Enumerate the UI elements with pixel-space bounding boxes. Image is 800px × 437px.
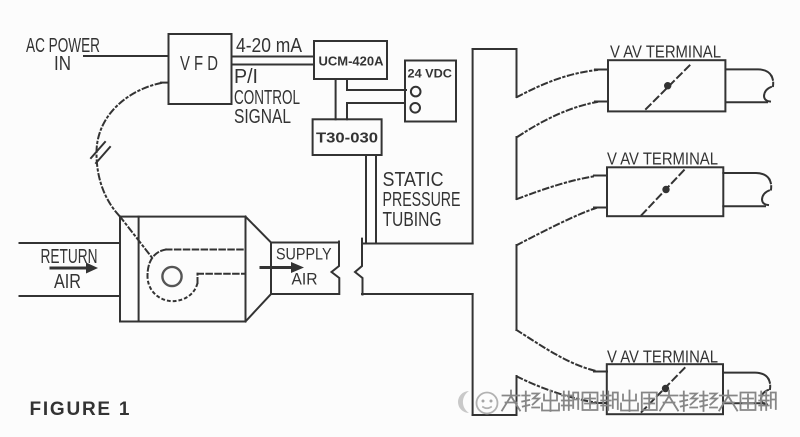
terminal1 outlet elbow dashed — [772, 76, 774, 86]
fan scroll circle — [162, 267, 181, 286]
terminal1 outlet duct top — [726, 69, 772, 76]
outlet taper bottom — [246, 294, 272, 322]
svg-text:UCM-420A: UCM-420A — [319, 55, 384, 69]
label P/I CONTROL SIGNAL — [234, 66, 300, 128]
flex duct terminal2 upper — [517, 176, 596, 199]
svg-text:V AV TERMINAL: V AV TERMINAL — [610, 42, 721, 62]
terminal1 inlet stub lower — [595, 101, 608, 103]
flex duct terminal3 lower — [517, 377, 596, 403]
wire VFD to UCM lower — [232, 64, 315, 66]
return air arrow — [51, 267, 88, 270]
supply duct section top — [271, 242, 339, 244]
wire AC power to VFD — [84, 55, 168, 57]
terminal circle 1 — [411, 87, 421, 97]
terminal3 outlet duct bottom — [723, 402, 764, 404]
watermark text strokes — [502, 391, 776, 412]
label RETURN AIR — [41, 246, 98, 293]
return air duct bottom — [20, 295, 121, 297]
svg-text:SIGNAL: SIGNAL — [234, 106, 291, 128]
svg-text:IN: IN — [54, 53, 71, 75]
watermark logo circle face — [477, 393, 498, 414]
duct break symbol right — [355, 239, 363, 295]
watermark logo crescent — [458, 391, 469, 413]
riser duct left wall upper — [472, 49, 474, 244]
riser duct top — [473, 48, 517, 50]
terminal1 damper pivot — [664, 82, 671, 89]
wire 24VDC lower terminal to T30 — [347, 103, 405, 119]
svg-text:FIGURE 1: FIGURE 1 — [30, 399, 130, 420]
svg-text:AIR: AIR — [54, 271, 81, 293]
terminal3 outlet duct top — [723, 373, 769, 379]
terminal2 damper pivot — [662, 186, 669, 193]
wire UCM to T30 — [335, 79, 337, 119]
terminal3 outlet hook — [761, 390, 768, 405]
flex duct terminal1 lower — [518, 102, 597, 137]
conduit hash marks — [91, 142, 105, 158]
24 VDC power supply box — [405, 61, 456, 122]
terminal2 outlet elbow dashed — [770, 180, 772, 190]
svg-text:PRESSURE: PRESSURE — [383, 189, 461, 211]
wire UCM to 24VDC upper terminal — [347, 79, 406, 90]
terminal2 damper blade — [642, 168, 687, 216]
label SUPPLY AIR — [276, 245, 332, 289]
svg-text:T30-030: T30-030 — [316, 131, 378, 147]
riser duct right wall segment 2 — [516, 137, 518, 199]
svg-text:SUPPLY: SUPPLY — [276, 245, 332, 264]
terminal3 inlet stub upper — [594, 371, 607, 373]
air handler box — [120, 217, 246, 322]
terminal2 inlet stub upper — [594, 175, 607, 177]
flex duct terminal2 lower — [517, 208, 596, 245]
terminal3 damper pivot — [662, 385, 669, 392]
svg-text:24 VDC: 24 VDC — [408, 69, 453, 81]
VFD U1 box — [169, 34, 232, 104]
T30-030 transducer box — [313, 119, 382, 155]
outlet taper top — [246, 217, 272, 243]
wire dashed arc VFD to fan motor — [96, 83, 161, 217]
supply duct to riser top — [362, 243, 473, 245]
VAV terminal 1 box — [608, 60, 725, 111]
riser duct left wall lower — [472, 294, 474, 415]
svg-text:TUBING: TUBING — [383, 209, 442, 231]
svg-text:STATIC: STATIC — [383, 169, 444, 191]
terminal3 damper blade — [642, 366, 687, 412]
static pressure tube 1 — [365, 155, 367, 244]
riser duct right wall segment 4 — [516, 376, 518, 415]
wire dashed diagonal to fan — [120, 217, 152, 258]
flex duct terminal3 upper — [517, 330, 597, 371]
svg-text:AIR: AIR — [292, 270, 318, 289]
terminal3 inlet stub lower — [594, 402, 607, 404]
terminal2 inlet stub lower — [594, 207, 607, 209]
label STATIC PRESSURE TUBING — [383, 169, 461, 231]
return air duct top — [20, 242, 121, 244]
svg-text:V AV TERMINAL: V AV TERMINAL — [607, 149, 718, 169]
supply duct section bottom — [271, 293, 339, 295]
fan outlet dashed riser — [197, 274, 199, 283]
terminal1 inlet stub upper — [595, 69, 608, 71]
VAV terminal 2 box — [607, 167, 723, 216]
terminal2 outlet duct bottom — [723, 205, 765, 207]
terminal1 outlet duct bottom — [726, 101, 768, 103]
supply duct to riser bottom — [362, 293, 473, 295]
UCM-420A U2 box — [314, 41, 387, 79]
supply air arrow — [261, 266, 293, 269]
air handler filter divider — [138, 217, 140, 322]
VAV terminal 3 box — [607, 364, 723, 414]
node AC POWER IN label — [26, 35, 100, 75]
static pressure tube 2 — [375, 155, 377, 244]
wire VFD to UCM upper (4-20 mA) — [232, 56, 315, 58]
fan outlet dashed bottom — [198, 273, 246, 275]
fan scroll dotted outline bottom — [148, 276, 198, 301]
fan outlet dashed top — [166, 249, 246, 251]
VFD motor lead stub — [161, 82, 169, 84]
terminal1 damper blade — [646, 63, 692, 109]
svg-text:P/I: P/I — [234, 66, 258, 88]
terminal2 outlet hook — [762, 191, 769, 206]
duct break symbol left — [332, 242, 340, 295]
outlet taper end wall — [270, 243, 272, 295]
terminal3 outlet elbow dashed — [769, 379, 771, 389]
svg-text:4-20 mA: 4-20 mA — [236, 35, 303, 57]
riser duct right wall segment 3 — [516, 245, 518, 330]
terminal1 outlet hook — [764, 87, 771, 102]
riser duct bottom — [473, 414, 517, 416]
flex duct terminal1 upper — [517, 70, 597, 97]
riser duct right wall segment 1 — [516, 49, 518, 97]
terminal circle 2 — [410, 103, 420, 113]
svg-text:V F D: V F D — [180, 53, 218, 75]
fan scroll dashed outline left — [148, 250, 167, 277]
terminal2 outlet duct top — [723, 173, 769, 180]
